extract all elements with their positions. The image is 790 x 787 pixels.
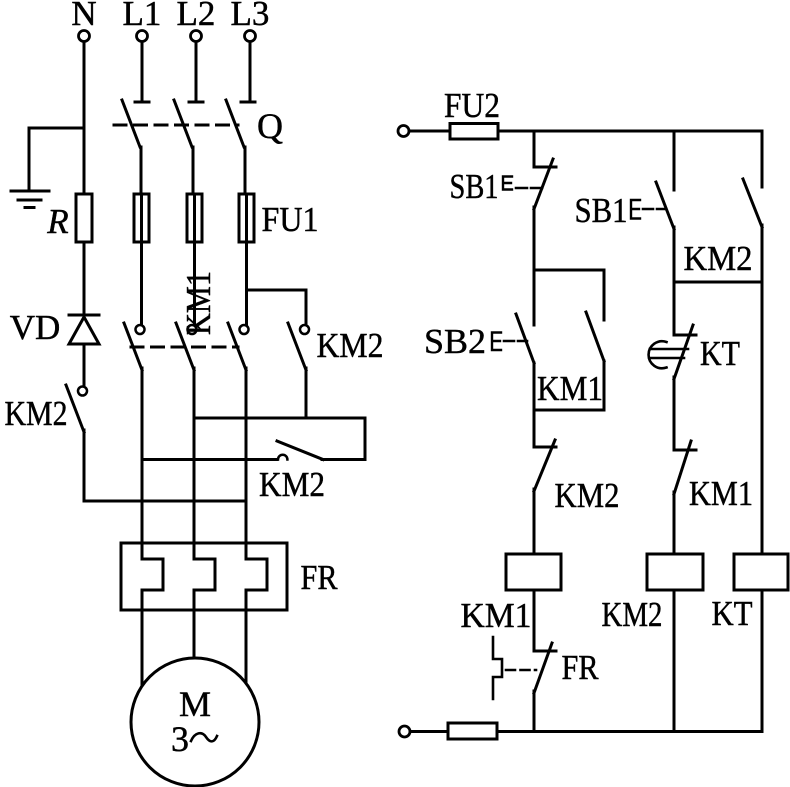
switch Q pole 3 (226, 100, 255, 147)
wire rail3 bottom (761, 590, 764, 731)
node L3 terminal (231, 0, 270, 42)
fuse FU1 element 2 (187, 194, 202, 242)
wire L1 top (141, 42, 144, 102)
svg-text:KM1: KM1 (461, 596, 532, 635)
switch Q linkage dashed (114, 124, 238, 127)
wire heater 1 to motor (141, 590, 144, 686)
wire L1 Q to fuse (140, 147, 143, 194)
svg-text:SB1: SB1 (575, 191, 628, 230)
contact KM1 auxiliary (self-hold) (537, 312, 604, 408)
diode VD (10, 308, 99, 347)
svg-text:KM1: KM1 (537, 369, 603, 408)
fuse FU1 element 3 (239, 194, 254, 242)
svg-text:SB2: SB2 (424, 322, 486, 361)
wire ground branch (29, 128, 84, 191)
resistor R (46, 194, 92, 242)
switch Q pole 1 (122, 100, 149, 147)
wire L3 branch to KM2 pole (247, 290, 307, 325)
node N terminal (71, 0, 96, 42)
svg-text:SB1: SB1 (450, 167, 499, 206)
wire rail1 to KM1 coil (533, 489, 536, 554)
node L2 terminal (177, 0, 216, 42)
wire bottom feed left (410, 730, 448, 733)
wire KM2 contact down (83, 430, 86, 501)
wire branch top (534, 270, 604, 320)
wire rail2 SB1 down (673, 227, 676, 282)
wire L3 through fuse region (245, 194, 248, 325)
contact KM1 linkage dashed (131, 346, 238, 349)
wire rail2 to KM2 coil (673, 492, 676, 554)
svg-text:KM2: KM2 (555, 476, 620, 515)
contact KM1 pole 2 (176, 323, 197, 370)
contact KT (NC time delay) (649, 325, 740, 379)
heater element 1 (142, 559, 163, 590)
svg-text:KM2: KM2 (317, 326, 384, 365)
contact KM2 (NC interlock) (534, 440, 620, 515)
motor M (131, 658, 259, 786)
wire bottom feed right (497, 730, 762, 733)
coil KT (712, 554, 789, 633)
pushbutton SB2 (NO start) (424, 270, 534, 363)
wire rail1 SB1 to branch (533, 207, 536, 270)
switch Q pole 2 (174, 100, 203, 147)
wire N column R to diode (83, 242, 86, 315)
wire top feed left (409, 130, 450, 133)
coil KM1 (461, 554, 562, 635)
svg-text:R: R (46, 202, 68, 241)
pushbutton SB1 (NC, rail 1) (450, 159, 557, 209)
contact KM2 auxiliary (top right) (684, 131, 763, 278)
svg-text:KM1: KM1 (179, 271, 218, 335)
ground (11, 191, 49, 208)
contact KM2 (horizontal) (259, 441, 365, 504)
wire L1 through fuse region (140, 194, 143, 325)
wire rail3 (761, 282, 764, 554)
wire N column top (83, 42, 86, 194)
wire L1 column lower (141, 368, 144, 559)
svg-text:FU2: FU2 (444, 86, 500, 125)
svg-text:KT: KT (700, 334, 740, 373)
contact KM1 pole 3 (228, 323, 249, 370)
svg-text:FR: FR (301, 558, 339, 597)
svg-text:M: M (179, 684, 211, 724)
fuse FU3 bottom (448, 723, 497, 739)
node L1 terminal (123, 0, 162, 42)
contact KM2 (plugging pole) (288, 323, 384, 370)
control terminal top (398, 126, 409, 137)
wire braking bus lower (84, 500, 246, 503)
wire junction bar (674, 281, 762, 284)
wire KT to KM1 NC (673, 377, 676, 450)
svg-text:KM2: KM2 (602, 595, 663, 634)
wire rail2 to KT (673, 282, 676, 335)
wire KM1 coil to FR (533, 590, 536, 651)
wire L2 column lower (193, 368, 196, 559)
wire diode to KM2 contact (83, 344, 86, 386)
svg-text:FU1: FU1 (262, 200, 319, 239)
coil KM2 (602, 554, 704, 634)
svg-text:KM1: KM1 (689, 474, 753, 513)
svg-text:Q: Q (257, 106, 283, 146)
fuse FU1 element 1 (134, 194, 149, 242)
svg-text:L3: L3 (231, 0, 270, 33)
wire heater 2 to motor (193, 590, 196, 659)
control terminal bottom (399, 726, 410, 737)
fuse FU2 (444, 86, 500, 139)
wire L3 Q to fuse (244, 147, 247, 194)
svg-text:KM2: KM2 (684, 239, 753, 278)
svg-text:L2: L2 (177, 0, 216, 33)
svg-text:VD: VD (10, 308, 61, 347)
svg-text:FR: FR (562, 648, 600, 687)
wire rail2 bottom (673, 590, 676, 731)
contact KM1 (NC interlock rail2) (674, 441, 753, 513)
svg-text:L1: L1 (123, 0, 162, 33)
wire L2 through fuse region (193, 194, 196, 325)
wire branch bottom (534, 361, 604, 410)
wire KM2 aux down (761, 225, 764, 282)
wire top feed right (498, 130, 762, 133)
svg-text:KT: KT (712, 594, 753, 633)
heater element 2 (194, 559, 215, 590)
wire rail2 top (673, 131, 676, 190)
wire L3 column lower (245, 368, 248, 559)
pushbutton SB1 (rail 2) (575, 182, 675, 230)
wire L2 Q to fuse (192, 147, 195, 194)
thermal relay FR heaters box (121, 543, 338, 610)
svg-text:N: N (71, 0, 96, 33)
svg-text:3: 3 (171, 719, 189, 759)
wire braking bus upper (194, 418, 365, 460)
wire heater 3 to motor (245, 590, 248, 683)
contact FR (NC thermal) (493, 637, 599, 699)
svg-text:KM2: KM2 (5, 394, 68, 433)
wire rail1 top (533, 131, 536, 167)
wire L2 top (195, 42, 198, 102)
wire L3 top (249, 42, 252, 102)
wire rail1 bottom (533, 691, 536, 731)
contact KM1 pole 1 (124, 323, 145, 370)
wire to KM2 horizontal contact (142, 458, 277, 461)
heater element 3 (246, 559, 267, 590)
contact KM2 (braking, N column) (5, 385, 88, 433)
svg-text:KM2: KM2 (259, 465, 325, 504)
wire rail1 to KM2 NC (533, 363, 536, 447)
wire KM2 pole down (305, 368, 308, 418)
